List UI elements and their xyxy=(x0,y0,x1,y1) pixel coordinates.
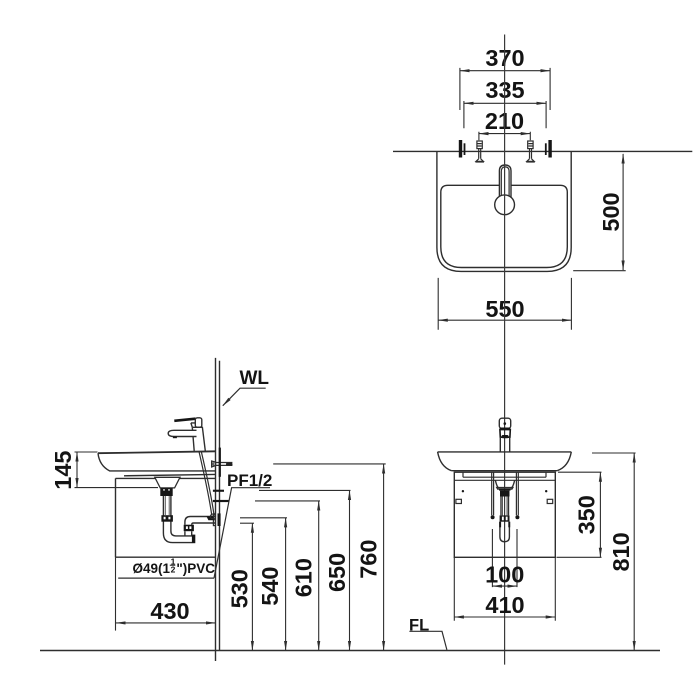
dimension 760 xyxy=(273,464,386,651)
hose end fitting (black) xyxy=(206,516,215,520)
dimension 500 xyxy=(573,154,626,271)
right anchor thin mark xyxy=(545,143,547,155)
svg-text:540: 540 xyxy=(257,566,283,605)
sink inner basin (plan) xyxy=(441,185,568,267)
dimension 145 xyxy=(50,450,158,489)
supply black block on wall xyxy=(218,513,221,526)
trap riser (side) xyxy=(185,531,192,536)
dimension 100 xyxy=(485,529,524,588)
dimension 810 xyxy=(592,453,636,650)
left anchor thin mark xyxy=(464,143,466,155)
faucet lever (side) xyxy=(174,419,195,421)
svg-text:810: 810 xyxy=(608,532,634,571)
faucet base dark blob xyxy=(502,435,509,438)
drain funnel (front) xyxy=(495,480,514,487)
dimension 410 xyxy=(454,557,555,621)
dimension 210 xyxy=(479,108,530,140)
dimension 370 xyxy=(460,45,550,110)
right supply hook xyxy=(515,515,519,519)
faucet body (side) xyxy=(192,427,205,451)
hose nut ellipse xyxy=(210,514,215,519)
dimension 335 xyxy=(464,77,546,128)
left bolt (plan) xyxy=(475,141,484,162)
drain thin band (front) xyxy=(499,489,511,491)
sink front lip (side) xyxy=(98,453,216,471)
wall line (plan) xyxy=(393,150,692,152)
cabinet recess band (front) xyxy=(463,472,546,477)
right handle dot xyxy=(545,490,547,492)
PF1/2 label xyxy=(214,471,272,578)
dimension 540 xyxy=(240,518,287,651)
faucet body (plan) inner xyxy=(501,167,509,201)
dimension 650 xyxy=(259,490,351,650)
right anchor thick mark xyxy=(548,140,551,158)
wall tick 1 (black) xyxy=(213,490,224,492)
wall flange of trap arm xyxy=(213,514,215,526)
wall line WL (outer) xyxy=(215,358,217,661)
dimension 530 xyxy=(227,523,254,650)
faucet dark band (front) xyxy=(500,428,511,430)
faucet handle base (front) xyxy=(500,430,510,438)
cabinet interior line (front) xyxy=(454,479,555,481)
svg-text:100: 100 xyxy=(485,562,524,588)
wall screw stub (side) xyxy=(212,461,233,467)
svg-text:Ø49(1: Ø49(1 xyxy=(133,561,171,576)
PVC label Ø49(1 1/2")PVC xyxy=(118,556,215,578)
svg-text:350: 350 xyxy=(574,495,600,534)
left handle dot xyxy=(462,490,464,492)
sink bowl bottom (front) xyxy=(451,470,557,472)
faucet supply hose (side) xyxy=(199,452,214,516)
svg-text:WL: WL xyxy=(240,368,270,389)
svg-text:410: 410 xyxy=(485,592,524,618)
right bolt (plan) xyxy=(526,141,535,162)
drain tailpiece flange (side) xyxy=(155,477,180,488)
svg-text:760: 760 xyxy=(356,540,382,579)
sink bowl right curve (front) xyxy=(557,452,571,471)
drain pipe (side) xyxy=(163,496,171,533)
faucet handle knob (side) xyxy=(195,418,202,428)
trap arm to wall (side) xyxy=(185,517,216,525)
trap elbow and bottom pipe (side) xyxy=(163,531,192,543)
sink deck top (side) xyxy=(98,451,216,453)
faucet knob dot xyxy=(504,422,507,425)
vertical centerline (plan + front) xyxy=(504,35,506,665)
svg-text:530: 530 xyxy=(227,569,253,608)
left handle xyxy=(456,499,462,503)
bottle side accents xyxy=(499,522,501,528)
faucet knob (front) xyxy=(499,418,510,428)
svg-text:")PVC: ")PVC xyxy=(176,561,215,576)
spout aerator xyxy=(173,437,177,439)
sink outer outline (plan) xyxy=(437,152,571,272)
dimension 350 xyxy=(557,472,602,557)
faucet shank (front) xyxy=(500,437,509,452)
left anchor thick mark xyxy=(459,140,462,158)
svg-text:430: 430 xyxy=(150,598,189,624)
right handle xyxy=(547,499,553,503)
svg-text:500: 500 xyxy=(598,192,624,231)
faucet neck (side) xyxy=(191,423,195,427)
drain nut (side) xyxy=(160,488,172,496)
sink underside (side) xyxy=(124,474,216,475)
right supply pipe (front) xyxy=(516,472,518,515)
dimension 610 xyxy=(255,501,320,651)
drain nut 2 (front) xyxy=(500,515,510,521)
left supply pipe (front) xyxy=(492,472,494,515)
svg-text:2: 2 xyxy=(171,565,176,575)
wall line WL (inner) xyxy=(219,361,221,651)
trap bottle (front) xyxy=(500,522,510,542)
svg-text:610: 610 xyxy=(291,558,317,597)
wall bracket black bar (side) xyxy=(219,448,221,477)
faucet body (plan) outer xyxy=(499,165,511,201)
bottom pipe end cap (side) xyxy=(192,535,195,544)
drain nut (front) xyxy=(500,491,510,497)
cabinet (front) xyxy=(454,472,555,557)
dimension 430 xyxy=(116,557,216,630)
pipe nut 2 (side) xyxy=(161,515,173,522)
riser nut (side) xyxy=(184,525,194,532)
FL label xyxy=(409,617,447,650)
drain hole circle (plan) xyxy=(495,195,515,215)
svg-text:145: 145 xyxy=(50,450,76,489)
drain flange (front) xyxy=(497,488,513,490)
WL label xyxy=(223,368,270,406)
svg-text:FL: FL xyxy=(409,617,429,635)
svg-text:650: 650 xyxy=(324,553,350,592)
faucet spout (side) xyxy=(168,430,196,436)
wall tick 2 (black) xyxy=(213,500,229,502)
floor line FL xyxy=(40,650,660,652)
left supply hook xyxy=(491,515,495,519)
sink rim (front) xyxy=(438,451,572,453)
cabinet (side) xyxy=(116,478,216,557)
dimension 550 xyxy=(438,278,571,330)
drain pipe (front) xyxy=(501,497,509,516)
sink bowl left curve (front) xyxy=(438,452,452,471)
